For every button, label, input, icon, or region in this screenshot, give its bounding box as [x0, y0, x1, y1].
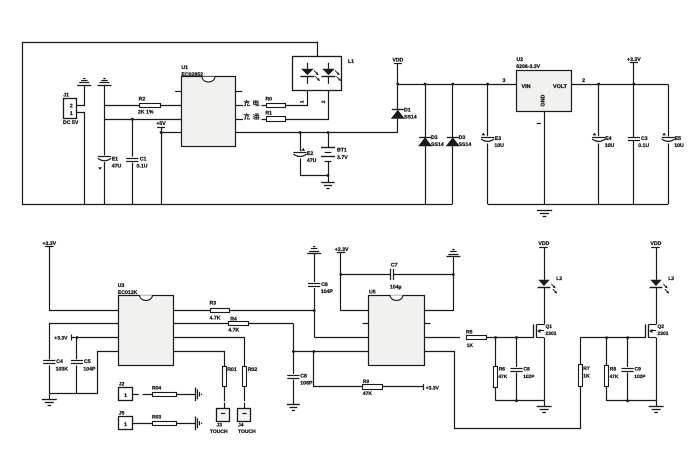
- capacitor C1: [132, 119, 134, 157]
- svg-text:R01: R01: [227, 367, 237, 373]
- wire +3.3V stem to U5 pin1: [341, 253, 369, 311]
- capacitor E3: [487, 84, 489, 136]
- svg-text:+5V: +5V: [156, 121, 166, 127]
- mosfet Q2 2301: [645, 324, 647, 338]
- svg-text:0.1U: 0.1U: [137, 164, 148, 170]
- ground (R2 / IC gnd): [98, 85, 112, 87]
- svg-text:C1: C1: [140, 156, 147, 162]
- wire U5 r4 route to Q2: [425, 352, 581, 429]
- capacitor C3: [628, 137, 640, 139]
- svg-text:1K: 1K: [583, 374, 590, 380]
- svg-text:L3: L3: [668, 276, 674, 282]
- wire E2 to BT1 gnd: [300, 175, 328, 177]
- svg-text:J3: J3: [217, 423, 223, 429]
- label CHONG DIAN (charging): [236, 105, 244, 107]
- svg-text:47U: 47U: [112, 164, 122, 170]
- wire U3 pin3 row: [71, 337, 118, 339]
- resistor R9: [314, 352, 363, 387]
- svg-text:104µ: 104µ: [390, 284, 402, 290]
- wire J1 pin1 to +5V rail: [77, 113, 85, 205]
- svg-text:10U: 10U: [605, 143, 615, 149]
- svg-text:U3: U3: [118, 283, 125, 289]
- battery BT1 3.7V: [328, 133, 330, 148]
- capacitor E2: [300, 133, 302, 152]
- ground (J1 pin2): [77, 85, 91, 87]
- net +3.3V label (R9): [423, 384, 425, 390]
- svg-text:47U: 47U: [307, 158, 317, 164]
- wire +5V outer loop (top/left/bottom rail): [23, 43, 453, 205]
- mosfet Q1 2301: [533, 324, 535, 338]
- svg-text:E1: E1: [112, 156, 118, 162]
- svg-text:C8: C8: [523, 366, 530, 372]
- svg-text:VOLT: VOLT: [553, 84, 568, 90]
- svg-text:47K: 47K: [363, 391, 373, 397]
- svg-text:BT1: BT1: [337, 147, 347, 153]
- svg-text:C7: C7: [391, 262, 398, 268]
- ground (J2/R04): [195, 388, 197, 402]
- wire L1 pin2 to R1: [286, 91, 329, 120]
- svg-text:+3.3V: +3.3V: [426, 385, 440, 391]
- touch pad J4: [238, 409, 251, 422]
- svg-text:4.7K: 4.7K: [228, 327, 239, 333]
- ground (Q1): [537, 406, 552, 408]
- svg-text:0.1U: 0.1U: [638, 143, 649, 149]
- svg-text:R0: R0: [265, 97, 272, 103]
- wire +3.3V to U3 pin1: [50, 247, 119, 311]
- wire C6 stem: [314, 253, 316, 282]
- svg-text:TOUCH: TOUCH: [210, 429, 228, 435]
- wire J1 pin2 to ground: [77, 86, 85, 106]
- svg-text:SS14: SS14: [459, 142, 472, 148]
- capacitor C6: [308, 283, 320, 285]
- diode D2 SS14: [425, 84, 427, 137]
- svg-text:D1: D1: [404, 107, 411, 113]
- svg-text:47K: 47K: [610, 374, 619, 380]
- svg-text:C8: C8: [300, 374, 307, 380]
- svg-text:E5: E5: [675, 136, 681, 142]
- svg-text:C3: C3: [641, 136, 648, 142]
- ground (J5/R03): [195, 417, 197, 431]
- resistor R7: [579, 365, 583, 387]
- svg-text:102P: 102P: [523, 374, 535, 380]
- LED L1b: [328, 63, 330, 69]
- svg-text:2301: 2301: [657, 331, 668, 337]
- svg-text:104P: 104P: [321, 289, 334, 295]
- LED module L1: [293, 57, 342, 91]
- touch pad J3: [217, 409, 230, 422]
- svg-text:R02: R02: [248, 367, 258, 373]
- svg-text:C4: C4: [56, 359, 63, 365]
- svg-text:Q1: Q1: [545, 324, 552, 330]
- svg-text:6206-3.3V: 6206-3.3V: [516, 64, 540, 70]
- svg-text:D3: D3: [459, 135, 466, 141]
- wire U5 r4 row left: [293, 351, 368, 353]
- resistor R8: [606, 338, 608, 366]
- svg-text:C6: C6: [321, 282, 328, 288]
- svg-text:104P: 104P: [83, 366, 96, 372]
- resistor R02: [243, 367, 247, 387]
- capacitor C7: [341, 274, 390, 276]
- wire R8/C9 gnd rail: [607, 400, 657, 402]
- LED L1a: [307, 63, 309, 69]
- resistor R5: [424, 337, 460, 339]
- wire L1 top feed: [317, 42, 319, 57]
- wire U3 pin2 / C4 branch: [50, 324, 119, 360]
- svg-text:U2: U2: [517, 57, 524, 63]
- svg-text:SS14: SS14: [404, 114, 417, 120]
- wire R7 to Q2 gate row: [581, 338, 646, 365]
- svg-text:2: 2: [70, 103, 73, 109]
- wire U2 GND stem: [544, 111, 546, 204]
- resistor R3: [174, 310, 211, 312]
- svg-text:J5: J5: [119, 411, 125, 417]
- svg-text:Q2: Q2: [657, 324, 664, 330]
- svg-text:D2: D2: [431, 135, 438, 141]
- svg-text:R04: R04: [152, 385, 161, 391]
- capacitor E1: [98, 156, 111, 158]
- svg-text:R2: R2: [139, 97, 146, 103]
- svg-text:VDD: VDD: [538, 241, 549, 247]
- capacitor C4: [43, 360, 55, 362]
- svg-text:TOUCH: TOUCH: [238, 429, 256, 435]
- svg-text:R6: R6: [499, 366, 506, 372]
- svg-text:U1: U1: [181, 65, 188, 71]
- svg-text:+3.3V: +3.3V: [54, 335, 68, 341]
- ground (C6 top): [307, 253, 321, 255]
- svg-text:47K: 47K: [498, 374, 507, 380]
- label CHONG MAN (full): [236, 119, 244, 121]
- svg-text:E4: E4: [605, 136, 611, 142]
- svg-text:J4: J4: [238, 423, 244, 429]
- svg-text:2301: 2301: [545, 331, 556, 337]
- wire +3.3V stem / C3: [633, 63, 635, 137]
- svg-text:R7: R7: [583, 366, 590, 372]
- resistor R4: [174, 323, 230, 325]
- ground (U2): [537, 210, 552, 212]
- wire U3 out1 to R02: [174, 338, 245, 367]
- wire VOUT rail: [571, 84, 668, 86]
- resistor R04: [133, 394, 139, 396]
- svg-text:3: 3: [502, 78, 505, 84]
- resistor R03: [133, 423, 152, 425]
- svg-text:EC012K: EC012K: [118, 290, 138, 296]
- capacitor C5: [76, 338, 78, 360]
- svg-text:1K: 1K: [467, 343, 474, 349]
- wire caps gnd rail: [49, 393, 98, 395]
- resistor R01: [223, 367, 227, 387]
- svg-text:R3: R3: [210, 300, 217, 306]
- capacitor E4: [598, 84, 600, 136]
- svg-text:U5: U5: [369, 290, 376, 296]
- svg-text:R8: R8: [610, 366, 617, 372]
- svg-text:R1: R1: [265, 110, 272, 116]
- wire U1 gnd row: [105, 119, 182, 121]
- capacitor E5: [668, 85, 670, 137]
- svg-text:103K: 103K: [56, 366, 69, 372]
- wire gnd to U5: [425, 257, 454, 311]
- diode D3 SS14: [452, 84, 454, 137]
- svg-text:10U: 10U: [674, 143, 684, 149]
- svg-text:2K 1%: 2K 1%: [138, 109, 154, 115]
- svg-text:10U: 10U: [494, 143, 504, 149]
- wire L1 pin1 to R0: [286, 91, 308, 106]
- svg-text:J1: J1: [63, 93, 69, 99]
- diode D1 SS14: [397, 63, 399, 110]
- svg-text:E2: E2: [307, 151, 313, 157]
- U5 nc stubs: [363, 323, 369, 325]
- capacitor C9: [627, 338, 629, 367]
- svg-text:C5: C5: [84, 359, 91, 365]
- svg-text:E3: E3: [495, 136, 501, 142]
- wire +5V stem to U1: [161, 127, 163, 204]
- LED L2: [544, 247, 546, 280]
- wire Q1 source to gnd: [544, 338, 546, 407]
- svg-text:102P: 102P: [634, 374, 646, 380]
- svg-text:1: 1: [124, 422, 127, 428]
- wire R4 to C8 node: [293, 324, 295, 375]
- ground (U5 pin top right): [446, 256, 460, 258]
- svg-text:R5: R5: [466, 330, 473, 336]
- wire U1 BAT row: [236, 132, 398, 134]
- svg-text:SS14: SS14: [431, 142, 444, 148]
- svg-text:L1: L1: [348, 59, 354, 65]
- svg-text:1: 1: [300, 100, 306, 103]
- svg-text:GND: GND: [540, 95, 546, 107]
- wire U3 pin4 row: [98, 352, 119, 394]
- wire R6/C8 gnd rail: [496, 400, 544, 402]
- svg-text:106P: 106P: [300, 381, 313, 387]
- resistor R6: [495, 338, 497, 367]
- wire right bottom rail: [488, 204, 669, 206]
- LED L3: [656, 247, 658, 280]
- U2 pin1 label: [537, 123, 541, 125]
- wire Q2 source to gnd: [656, 338, 658, 407]
- svg-text:1: 1: [124, 393, 127, 399]
- wire VDD rail: [398, 84, 516, 86]
- ground (C4/C5): [49, 394, 51, 400]
- wire U3 out2 to R01: [174, 352, 225, 367]
- svg-text:4.7K: 4.7K: [210, 315, 221, 321]
- wire C6 to U5 pin: [314, 288, 316, 338]
- capacitor C8 (filter): [287, 375, 299, 377]
- svg-text:L2: L2: [556, 276, 562, 282]
- resistor R2: [105, 105, 140, 107]
- svg-text:J2: J2: [119, 382, 125, 388]
- svg-text:1: 1: [70, 111, 73, 117]
- svg-text:3.7V: 3.7V: [337, 155, 348, 161]
- svg-text:2: 2: [321, 100, 327, 103]
- ground (battery): [321, 182, 335, 184]
- capacitor C8 (gate): [516, 338, 518, 367]
- svg-text:2: 2: [582, 78, 585, 84]
- svg-text:VDD: VDD: [392, 58, 403, 64]
- svg-text:C9: C9: [635, 366, 642, 372]
- svg-text:VIN: VIN: [522, 84, 531, 90]
- ground (C8): [287, 404, 300, 406]
- svg-text:R03: R03: [152, 414, 161, 420]
- wire gnd stem / E1 branch: [104, 85, 106, 155]
- svg-text:DC 5V: DC 5V: [63, 120, 79, 126]
- U1 nc stubs: [175, 91, 181, 93]
- svg-text:VDD: VDD: [650, 241, 661, 247]
- ground (Q2): [649, 406, 664, 408]
